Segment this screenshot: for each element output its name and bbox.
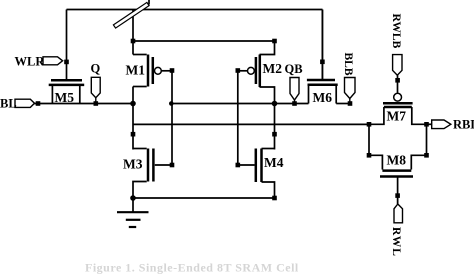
svg-text:BLB: BLB xyxy=(342,53,354,76)
svg-text:RBL: RBL xyxy=(453,118,474,132)
svg-text:M1: M1 xyxy=(126,63,146,78)
svg-text:QB: QB xyxy=(285,62,303,76)
svg-text:M8: M8 xyxy=(387,152,407,167)
svg-text:M6: M6 xyxy=(313,90,333,105)
svg-text:Figure 1. Single-Ended 8T SRAM: Figure 1. Single-Ended 8T SRAM Cell xyxy=(85,261,299,275)
svg-text:M2: M2 xyxy=(263,61,283,76)
svg-text:RWL: RWL xyxy=(390,227,402,257)
svg-text:BL: BL xyxy=(0,97,17,111)
svg-text:M7: M7 xyxy=(387,108,407,123)
svg-text:WLR: WLR xyxy=(15,55,46,69)
svg-text:M3: M3 xyxy=(123,157,143,172)
svg-text:M5: M5 xyxy=(55,90,75,105)
svg-text:RWLB: RWLB xyxy=(390,14,402,49)
svg-text:Q: Q xyxy=(91,62,101,76)
svg-text:M4: M4 xyxy=(264,155,284,170)
